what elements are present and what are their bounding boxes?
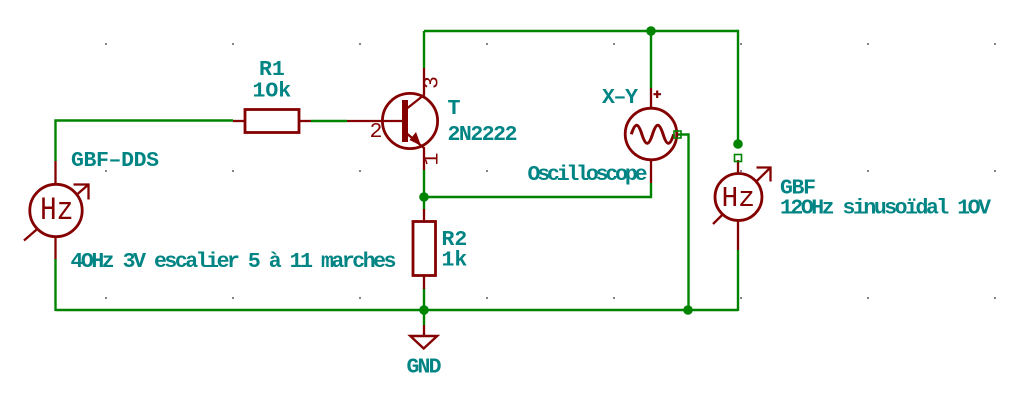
ground xyxy=(410,325,437,349)
wire emitter to node xyxy=(423,170,425,197)
wire top horizontal from transistor collector to right rail xyxy=(424,30,738,32)
wire oscilloscope right output down to bottom rail xyxy=(677,135,689,311)
svg-text:Hz: Hz xyxy=(722,182,756,215)
signal generator GBF-DDS xyxy=(24,161,89,259)
junction at top wire and oscilloscope xyxy=(646,26,656,36)
wire bottom rail xyxy=(56,309,739,311)
svg-text:2: 2 xyxy=(370,120,383,144)
svg-text:R1: R1 xyxy=(259,58,285,82)
transistor T 2N2222 xyxy=(347,68,438,170)
emitter arrowhead xyxy=(410,132,422,146)
wire GBF bottom to bottom rail xyxy=(737,250,739,311)
svg-text:1k: 1k xyxy=(442,249,468,273)
wire left rail top + horizontal to R1 xyxy=(56,121,234,162)
wire right rail upper segment xyxy=(737,30,739,144)
svg-text:2N2222: 2N2222 xyxy=(448,123,518,147)
junction R2 bottom at ground rail xyxy=(419,305,429,315)
svg-text:1Ok: 1Ok xyxy=(253,80,292,104)
svg-text:Hz: Hz xyxy=(40,192,74,229)
junction emitter node xyxy=(419,192,429,202)
wire ground stub xyxy=(423,310,425,325)
svg-text:X–Y: X–Y xyxy=(602,86,638,110)
dangling marker square at oscilloscope right pin xyxy=(674,131,681,138)
svg-text:T: T xyxy=(448,97,461,121)
wire oscilloscope top drop xyxy=(650,31,652,88)
wire R2 bottom to ground rail xyxy=(423,288,425,310)
dangling marker square at GBF top pin xyxy=(735,155,742,162)
svg-text:GND: GND xyxy=(407,356,442,380)
wire node to R2 top xyxy=(423,197,425,210)
signal generator GBF xyxy=(713,160,771,250)
svg-text:3: 3 xyxy=(421,76,445,89)
svg-text:4OHz 3V escalier 5 à 11 marche: 4OHz 3V escalier 5 à 11 marches xyxy=(71,250,397,274)
resistor R2 xyxy=(413,209,436,289)
wire left rail bottom segment xyxy=(54,259,56,311)
wire R1 to transistor base xyxy=(311,120,347,122)
wire collector vertical green xyxy=(423,31,425,68)
oscilloscope X-Y xyxy=(625,88,677,183)
junction oscilloscope branch at bottom rail xyxy=(683,305,693,315)
resistor R1 xyxy=(233,110,311,133)
svg-text:GBF–DDS: GBF–DDS xyxy=(71,149,159,173)
junction right rail at GBF top xyxy=(733,139,743,149)
svg-text:1: 1 xyxy=(421,153,445,166)
svg-text:Oscilloscope: Oscilloscope xyxy=(528,163,648,187)
svg-text:12OHz sinusoïdal 1OV: 12OHz sinusoïdal 1OV xyxy=(780,197,991,221)
wire node to oscilloscope bottom xyxy=(424,183,651,197)
pin label + xyxy=(654,91,662,99)
